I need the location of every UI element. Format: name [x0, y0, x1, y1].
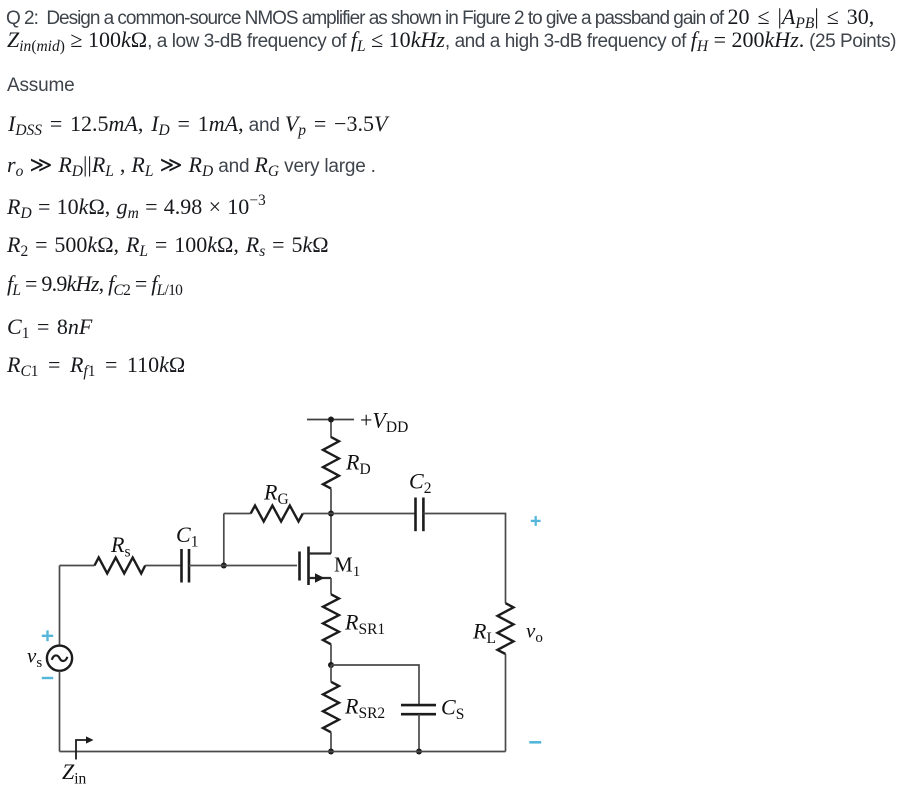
label vs plus sign: [42, 630, 53, 641]
svg-text:RL: RL: [472, 619, 496, 648]
capacitor C2: [416, 498, 424, 532]
svg-text:CS: CS: [441, 695, 464, 724]
node drain junction dot: [328, 511, 334, 517]
wire RSR1 to node A: [330, 644, 332, 665]
label RSR2: [344, 694, 385, 723]
label C2: [409, 469, 431, 498]
svg-text:RSR1: RSR1: [344, 610, 385, 639]
transistor M1 gate bar: [298, 552, 301, 581]
resistor RSR2: [323, 682, 339, 733]
wire C2 to output corner: [423, 514, 505, 604]
svg-text:C1: C1: [176, 522, 198, 551]
svg-text:C2: C2: [409, 469, 431, 498]
wire Rs to C1: [145, 565, 181, 567]
junction dot CS bottom: [416, 749, 422, 755]
label C1: [176, 522, 198, 551]
wire node A to CS branch: [331, 665, 419, 705]
label +VDD: [360, 408, 408, 437]
junction dot RSR2 bottom: [328, 749, 334, 755]
resistor RD: [323, 437, 339, 489]
junction dot gate node: [221, 563, 227, 569]
svg-text:RD: RD: [345, 450, 371, 479]
wire node A to RSR2: [330, 665, 332, 682]
label RD: [345, 450, 371, 479]
label Rs: [110, 532, 131, 561]
transistor M1 channel bar: [307, 547, 310, 586]
svg-text:Zin: Zin: [62, 759, 87, 788]
node A junction dot: [328, 662, 334, 668]
ground rail wire: [60, 751, 506, 753]
svg-text:RSR2: RSR2: [344, 694, 385, 723]
wire drain node to C2: [331, 513, 416, 515]
wire RL to ground rail: [505, 654, 507, 752]
svg-text:vo: vo: [526, 619, 543, 647]
label vs: [27, 644, 42, 672]
Zin arrow: [76, 740, 87, 760]
wire RSR2 to ground rail: [330, 732, 332, 751]
resistor Rs: [95, 558, 146, 574]
power symbol +VDD: [307, 419, 354, 421]
output minus sign: [529, 741, 541, 744]
wire RG right lead: [303, 513, 331, 515]
label Zin: [62, 759, 87, 788]
transistor M1 source arrow: [315, 573, 325, 582]
svg-text:Rs: Rs: [110, 532, 131, 561]
svg-text:+VDD: +VDD: [360, 408, 408, 437]
source vs circle: [47, 646, 72, 671]
label vo: [526, 619, 543, 647]
Zin arrowhead: [86, 736, 94, 743]
wire VDD tap to RD: [330, 420, 332, 438]
capacitor C1: [182, 549, 190, 583]
label RG: [263, 480, 289, 509]
label RL: [472, 619, 496, 648]
label RSR1: [344, 610, 385, 639]
resistor RL: [498, 603, 514, 654]
label M1: [334, 553, 360, 581]
wire C1 to gate: [189, 565, 297, 567]
wire CS to ground rail: [418, 714, 420, 751]
svg-text:M1: M1: [334, 553, 360, 581]
wire RG left lead: [224, 513, 251, 515]
wire vs to ground rail: [59, 671, 61, 752]
wire RG loop vertical: [223, 514, 225, 566]
transistor M1 source lead: [309, 577, 332, 579]
source vs tilde: [52, 655, 68, 661]
wire RD to drain node: [330, 489, 332, 554]
resistor RG: [251, 506, 303, 522]
junction dot VDD tap: [328, 417, 334, 423]
svg-text:RG: RG: [263, 480, 289, 509]
wire source to RSR1: [330, 578, 332, 594]
capacitor CS: [401, 705, 436, 714]
label CS: [441, 695, 464, 724]
transistor M1 drain lead: [309, 552, 332, 554]
wire gate line to vs: [59, 566, 61, 646]
svg-text:vs: vs: [27, 644, 42, 672]
resistor RSR1: [323, 594, 339, 644]
output plus sign: [531, 516, 541, 526]
label vs minus sign: [42, 677, 53, 679]
wire input to Rs: [60, 565, 95, 567]
